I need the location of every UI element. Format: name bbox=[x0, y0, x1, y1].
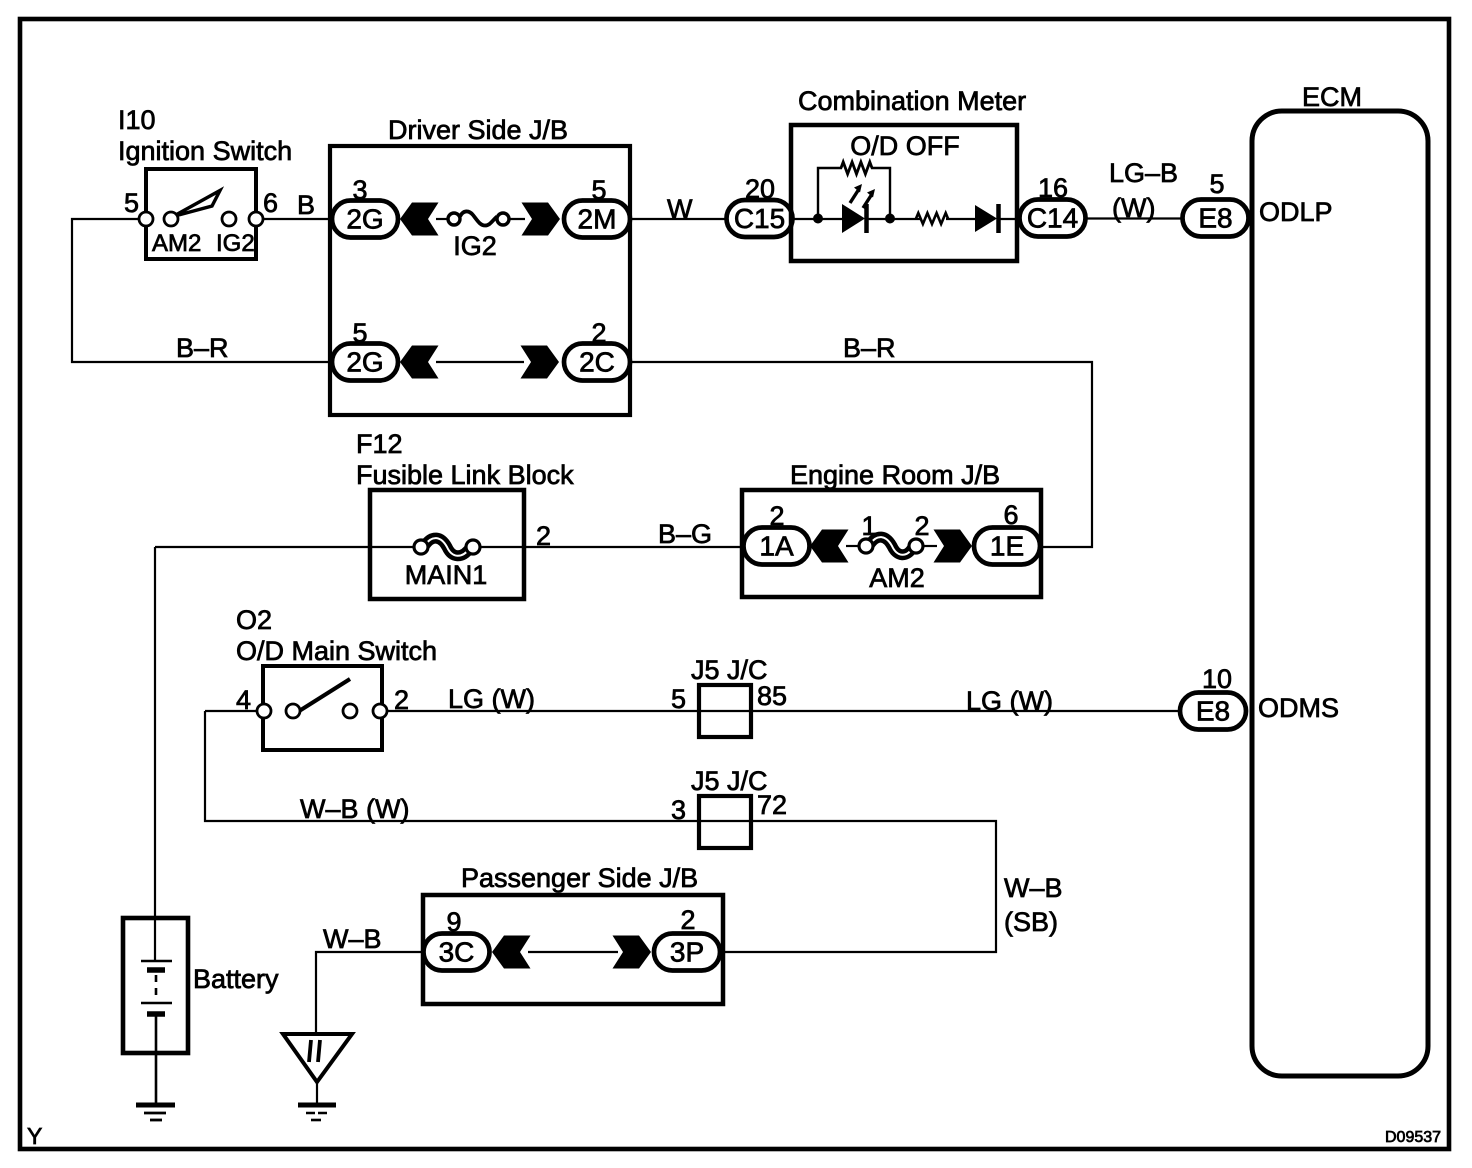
svg-text:9: 9 bbox=[446, 907, 461, 937]
svg-text:ODMS: ODMS bbox=[1258, 693, 1339, 723]
svg-text:1E: 1E bbox=[990, 531, 1024, 562]
svg-text:MAIN1: MAIN1 bbox=[405, 560, 488, 590]
svg-text:3: 3 bbox=[352, 175, 367, 205]
svg-text:Fusible Link Block: Fusible Link Block bbox=[356, 460, 574, 490]
svg-text:85: 85 bbox=[757, 681, 787, 711]
svg-text:2: 2 bbox=[591, 318, 606, 348]
svg-text:ECM: ECM bbox=[1302, 82, 1362, 112]
svg-text:B: B bbox=[297, 190, 315, 220]
svg-text:1: 1 bbox=[861, 511, 876, 541]
svg-text:5: 5 bbox=[671, 684, 686, 714]
svg-text:Battery: Battery bbox=[193, 964, 279, 994]
svg-text:LG (W): LG (W) bbox=[966, 686, 1053, 716]
svg-text:2G: 2G bbox=[346, 204, 383, 235]
svg-text:LG (W): LG (W) bbox=[448, 684, 535, 714]
svg-text:(SB): (SB) bbox=[1004, 907, 1058, 937]
svg-text:2: 2 bbox=[914, 511, 929, 541]
svg-text:W–B: W–B bbox=[1004, 873, 1063, 903]
svg-text:3: 3 bbox=[671, 795, 686, 825]
svg-text:I10: I10 bbox=[118, 105, 156, 135]
svg-text:AM2: AM2 bbox=[869, 563, 925, 593]
svg-text:F12: F12 bbox=[356, 429, 403, 459]
svg-text:6: 6 bbox=[1003, 500, 1018, 530]
svg-text:2G: 2G bbox=[346, 347, 383, 378]
svg-text:5: 5 bbox=[1209, 169, 1224, 199]
svg-text:3C: 3C bbox=[439, 937, 475, 968]
svg-text:O/D OFF: O/D OFF bbox=[850, 131, 960, 161]
svg-text:16: 16 bbox=[1038, 173, 1068, 203]
svg-text:2: 2 bbox=[769, 501, 784, 531]
svg-text:C14: C14 bbox=[1027, 203, 1078, 234]
svg-text:6: 6 bbox=[263, 188, 278, 218]
svg-text:AM2: AM2 bbox=[152, 230, 201, 257]
svg-text:O/D Main Switch: O/D Main Switch bbox=[236, 636, 437, 666]
svg-text:Passenger Side J/B: Passenger Side J/B bbox=[461, 863, 698, 893]
svg-text:Driver Side J/B: Driver Side J/B bbox=[388, 115, 568, 145]
svg-text:5: 5 bbox=[591, 175, 606, 205]
svg-text:4: 4 bbox=[236, 685, 251, 715]
svg-text:B–R: B–R bbox=[176, 333, 229, 363]
svg-text:IG2: IG2 bbox=[216, 230, 255, 257]
svg-text:Combination Meter: Combination Meter bbox=[798, 86, 1026, 116]
svg-text:IG2: IG2 bbox=[453, 231, 497, 261]
svg-text:5: 5 bbox=[352, 318, 367, 348]
svg-text:10: 10 bbox=[1202, 664, 1232, 694]
svg-text:2: 2 bbox=[680, 905, 695, 935]
svg-text:2C: 2C bbox=[579, 347, 615, 378]
svg-text:Ignition Switch: Ignition Switch bbox=[118, 136, 292, 166]
svg-text:C15: C15 bbox=[734, 203, 785, 234]
svg-text:(W): (W) bbox=[1112, 193, 1155, 223]
svg-text:20: 20 bbox=[745, 174, 775, 204]
svg-text:E8: E8 bbox=[1196, 696, 1230, 727]
svg-text:B–G: B–G bbox=[658, 519, 712, 549]
svg-text:W–B: W–B bbox=[323, 924, 382, 954]
svg-text:D09537: D09537 bbox=[1385, 1129, 1441, 1146]
svg-text:LG–B: LG–B bbox=[1109, 158, 1178, 188]
svg-text:3P: 3P bbox=[670, 937, 704, 968]
svg-text:Y: Y bbox=[27, 1123, 42, 1149]
svg-text:1A: 1A bbox=[759, 531, 794, 562]
svg-text:O2: O2 bbox=[236, 605, 272, 635]
svg-text:ODLP: ODLP bbox=[1259, 197, 1333, 227]
svg-text:B–R: B–R bbox=[843, 333, 896, 363]
svg-text:2: 2 bbox=[394, 685, 409, 715]
svg-text:5: 5 bbox=[124, 188, 139, 218]
svg-text:W–B (W): W–B (W) bbox=[300, 794, 409, 824]
svg-text:72: 72 bbox=[757, 790, 787, 820]
svg-text:2: 2 bbox=[536, 521, 551, 551]
svg-text:2M: 2M bbox=[578, 204, 617, 235]
svg-text:E8: E8 bbox=[1198, 203, 1232, 234]
svg-text:W: W bbox=[667, 194, 693, 224]
svg-text:Engine Room J/B: Engine Room J/B bbox=[790, 460, 1000, 490]
